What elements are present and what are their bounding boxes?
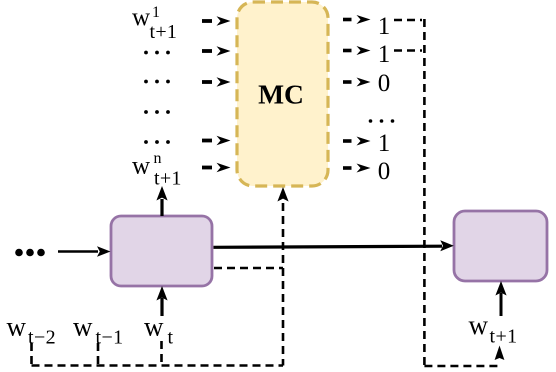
svg-text:0: 0: [378, 158, 391, 185]
svg-text:n: n: [154, 150, 162, 167]
svg-text:MC: MC: [258, 79, 304, 110]
dots row 4 right: [369, 119, 395, 123]
dashed arrow out of MC row 5: [343, 137, 371, 146]
dashed arrow out of MC row 1: [343, 15, 371, 24]
svg-text:w: w: [469, 310, 489, 340]
dots row 4 left: [144, 110, 170, 114]
svg-text:t+1: t+1: [150, 21, 178, 43]
dashed arrow out of MC row 3: [343, 78, 371, 87]
RNN cell right: [454, 211, 547, 281]
svg-text:t−2: t−2: [28, 327, 56, 349]
label wn t+1: [132, 150, 182, 190]
dashed arrow into MC row 3: [202, 77, 231, 86]
dashed arrow into MC row 5: [202, 136, 231, 145]
dashed feedback line vertical right: [423, 19, 426, 366]
dots row 2 left: [144, 51, 170, 55]
svg-text:1: 1: [378, 41, 391, 68]
dashed stub under w t-1: [97, 343, 100, 366]
svg-text:t: t: [168, 327, 174, 349]
dashed arrow up to w t+1: [495, 346, 505, 361]
dots row 5 left: [144, 140, 170, 144]
dashed arrow into MC row 2: [202, 46, 231, 55]
MC box: [237, 2, 328, 186]
input ellipsis dots: [15, 249, 45, 257]
RNN cell left: [111, 216, 212, 286]
dashed feedback line bottom right: [424, 365, 501, 368]
dots row 3 left: [144, 80, 170, 84]
dashed context line bottom: [32, 364, 284, 367]
arrow from w t+1 into right cell bottom: [495, 281, 506, 316]
dashed arrow into MC row 1: [202, 16, 231, 25]
label w t-2: [7, 312, 57, 349]
arrow left cell to right cell: [214, 240, 454, 251]
arrow from w t into left cell bottom: [156, 286, 167, 316]
svg-text:w: w: [132, 4, 150, 31]
svg-text:w: w: [73, 312, 93, 342]
label w t: [144, 312, 174, 349]
svg-text:t+1: t+1: [490, 326, 518, 348]
dashed connector from output 1 row 1: [394, 19, 422, 22]
label w t+1: [469, 310, 518, 348]
dashed stub under w t-2: [30, 343, 33, 366]
svg-text:w: w: [144, 312, 164, 342]
dashed arrow up into MC bottom: [277, 187, 288, 366]
svg-text:t+1: t+1: [154, 168, 182, 190]
dashed connector from output 1 row 2: [394, 49, 422, 52]
dashed line from left cell to MC feed: [214, 267, 283, 270]
arrow into left cell: [58, 246, 111, 257]
label w t-1: [73, 312, 124, 349]
svg-text:1: 1: [378, 130, 391, 157]
dashed stub under w t: [160, 341, 163, 366]
dashed arrow out of MC row 2: [343, 46, 371, 55]
svg-text:t−1: t−1: [96, 327, 124, 349]
svg-text:w: w: [7, 312, 27, 342]
svg-text:1: 1: [152, 4, 160, 21]
svg-text:0: 0: [378, 70, 391, 97]
label w1 t+1: [132, 4, 177, 43]
svg-text:w: w: [132, 153, 150, 180]
dashed arrow out of MC row 6: [343, 164, 371, 173]
dashed arrow into MC row 6: [202, 163, 231, 172]
arrow up from left cell top: [156, 186, 167, 216]
svg-text:1: 1: [378, 13, 391, 40]
